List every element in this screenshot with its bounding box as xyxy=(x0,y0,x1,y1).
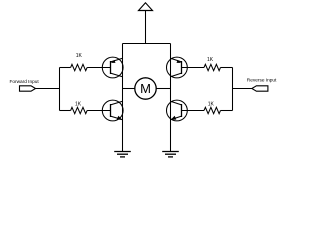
wire: left node to motor xyxy=(123,88,135,90)
resistor R1 1K (top-left) xyxy=(60,53,111,71)
wire: motor to right node xyxy=(156,88,170,90)
wire: reverse input branch vertical xyxy=(232,68,234,111)
wire: forward input branch vertical xyxy=(59,68,61,111)
svg-text:1K: 1K xyxy=(75,101,82,107)
svg-text:Forward Input: Forward Input xyxy=(9,79,39,85)
svg-text:1K: 1K xyxy=(208,101,215,107)
svg-text:1K: 1K xyxy=(207,57,214,63)
resistor R4 1K (bottom-right) xyxy=(182,101,233,113)
resistor R2 1K (bottom-left) xyxy=(60,101,111,113)
transistor Q4 (NPN lower-right) xyxy=(167,100,188,121)
wire: top supply rail xyxy=(123,43,171,45)
wire: forward port to branch xyxy=(36,88,60,90)
motor M1 xyxy=(135,78,156,99)
connector: Forward Input port xyxy=(9,79,39,91)
svg-text:Reverse Input: Reverse Input xyxy=(247,78,277,84)
resistor R3 1K (top-right) xyxy=(182,57,233,70)
power supply symbol (VCC arrow) xyxy=(139,3,153,44)
svg-text:M: M xyxy=(140,81,151,96)
svg-text:1K: 1K xyxy=(76,53,83,59)
ground (right) xyxy=(162,152,179,157)
ground (left) xyxy=(114,152,131,157)
wire: right vertical (rail / Q3 / motor node / Q4 / ground) xyxy=(170,44,172,152)
connector: Reverse Input port xyxy=(247,78,277,92)
wire: left vertical (rail / Q1 / motor node / Q2 / ground) xyxy=(122,44,124,152)
wire: branch to reverse port xyxy=(233,88,252,90)
transistor Q1 (PNP upper-left) xyxy=(102,57,123,78)
transistor Q2 (NPN lower-left) xyxy=(102,100,123,121)
transistor Q3 (PNP upper-right) xyxy=(167,57,188,78)
